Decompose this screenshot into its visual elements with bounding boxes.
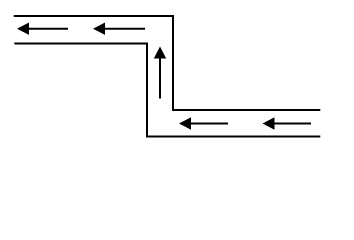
wire: inner channel wall (top duct lower line, left wall, bottom duct lower line) [14, 44, 320, 137]
arrow A4 (bottom duct, left-pointing, left) [179, 117, 228, 129]
arrow A3 (vertical duct, up-pointing) [154, 47, 166, 99]
arrow A2 (top duct, left-pointing, right of A1) [93, 23, 145, 35]
arrow A5 (bottom duct, left-pointing, right) [263, 117, 312, 129]
arrow A1 (top duct, left-pointing, leftmost) [17, 23, 68, 35]
wire: outer channel wall (top duct upper line, right wall, bottom duct upper line) [14, 16, 321, 110]
